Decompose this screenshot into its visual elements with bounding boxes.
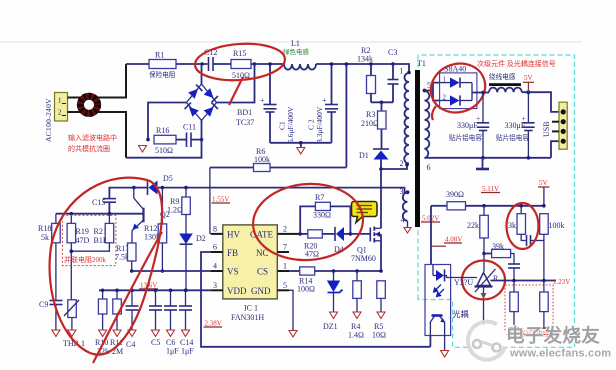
resistor R6	[210, 62, 348, 171]
svg-text:3k: 3k	[508, 221, 516, 230]
svg-text:2: 2	[283, 225, 287, 234]
resistor R19	[67, 214, 89, 300]
svg-text:2.38V: 2.38V	[205, 320, 222, 328]
wire aux line to D5	[158, 188, 408, 193]
wire 22k to TL431	[483, 254, 485, 272]
capacitor C6	[164, 289, 179, 356]
svg-text:5V: 5V	[524, 74, 533, 82]
svg-text:Y3?U: Y3?U	[454, 278, 473, 287]
node 22k top	[482, 204, 486, 208]
secondary ground bar	[476, 158, 489, 169]
svg-text:1μF: 1μF	[166, 347, 179, 356]
secondary winding	[425, 91, 430, 158]
capacitor C2 electrolytic	[307, 62, 339, 143]
svg-text:1: 1	[58, 97, 62, 105]
svg-text:绕线电感: 绕线电感	[489, 72, 516, 81]
svg-text:保险电阻: 保险电阻	[149, 70, 176, 79]
svg-text:47D: 47D	[76, 236, 90, 245]
resistor R2	[357, 46, 376, 102]
svg-text:VDD: VDD	[227, 286, 247, 296]
svg-text:1: 1	[400, 67, 404, 76]
svg-text:R15: R15	[233, 49, 246, 58]
resistor R21	[70, 214, 114, 253]
wire top bus left	[126, 63, 208, 65]
wire drain vertical to Q1	[380, 169, 382, 227]
red circle S8A40	[424, 56, 492, 120]
svg-text:5k: 5k	[41, 233, 49, 242]
svg-text:7NM60: 7NM60	[351, 254, 376, 263]
node R19 top	[70, 212, 74, 216]
resistor 22k	[467, 206, 488, 254]
svg-text:R7: R7	[315, 193, 324, 202]
inductor L1	[283, 39, 316, 70]
capacitor C15	[92, 198, 116, 214]
zener DZ1	[323, 271, 343, 331]
svg-text:R16: R16	[156, 126, 169, 135]
svg-text:BD1: BD1	[237, 108, 252, 117]
capacitor C14	[179, 289, 194, 356]
wire pin5 to rectifier	[425, 83, 440, 91]
ground under C1 C2	[297, 143, 305, 154]
svg-text:+: +	[476, 114, 480, 123]
wire aux pin4 to ground	[407, 221, 409, 227]
svg-text:1.4Ω: 1.4Ω	[348, 331, 364, 340]
svg-text:4: 4	[213, 262, 217, 271]
node R4	[355, 269, 359, 273]
node bus-bridge top	[200, 62, 204, 66]
resistor R15	[231, 60, 251, 69]
svg-text:次级元件 及光耦连接信号: 次级元件 及光耦连接信号	[477, 59, 556, 68]
svg-text:1: 1	[283, 262, 287, 271]
transistor Q2	[132, 188, 170, 243]
capacitor C3	[388, 48, 399, 102]
resistor R11	[110, 289, 123, 357]
core	[415, 70, 420, 227]
wire HV feed vertical	[209, 168, 211, 234]
LED	[432, 265, 434, 276]
red circle TL431	[462, 261, 505, 300]
aux winding	[403, 193, 408, 221]
wire bridge left corner to R16 node	[148, 103, 187, 140]
wire choke top to bus	[97, 64, 126, 98]
wire bus down to bridge top	[201, 64, 203, 84]
yellow comment bubble	[352, 202, 378, 223]
svg-text:并联电阻200k: 并联电阻200k	[64, 255, 106, 264]
capacitor comp 3k	[527, 235, 544, 246]
svg-text:AC100-240V: AC100-240V	[44, 98, 53, 142]
svg-text:5V: 5V	[539, 179, 548, 187]
svg-text:3: 3	[213, 281, 217, 290]
wire bridge bottom down to return rail	[126, 121, 202, 158]
wire VS rail	[132, 270, 211, 272]
svg-text:5: 5	[283, 281, 287, 290]
transistor Q1 MOSFET	[351, 227, 381, 271]
svg-text:4.08V: 4.08V	[445, 236, 462, 244]
resistor R16	[154, 135, 176, 144]
node cap1	[481, 91, 485, 95]
svg-text:D5: D5	[163, 174, 173, 183]
shunt regulator TL431	[475, 269, 500, 326]
svg-text:210Ω: 210Ω	[361, 119, 379, 128]
resistor 3k	[508, 206, 526, 241]
resistor R18	[38, 214, 60, 300]
watermark text	[506, 325, 611, 360]
node gate right	[349, 232, 353, 236]
svg-text:FAN301H: FAN301H	[231, 313, 264, 322]
resistor 100k	[540, 214, 565, 281]
svg-text:330Ω: 330Ω	[313, 211, 331, 220]
svg-text:贴片铝电容: 贴片铝电容	[449, 133, 482, 142]
svg-text:HV: HV	[227, 229, 240, 239]
svg-text:1.23V: 1.23V	[553, 278, 570, 286]
wire GND pin to ground	[289, 290, 293, 330]
wire connector to choke bottom	[68, 111, 82, 113]
op IC1 FAN301H	[211, 225, 289, 323]
wire inductor to USB	[522, 92, 559, 112]
optocoupler	[425, 265, 477, 336]
wire choke bottom to lower rail	[97, 112, 126, 158]
svg-text:4: 4	[401, 216, 405, 225]
svg-text:光耦: 光耦	[453, 309, 469, 319]
svg-text:www.elecfans.com: www.elecfans.com	[509, 348, 611, 360]
connector J1 AC input	[55, 93, 68, 122]
wire USB return	[551, 141, 559, 158]
node 5V	[526, 90, 530, 94]
svg-text:电子发烧友: 电子发烧友	[506, 325, 600, 346]
svg-text:1.55V: 1.55V	[212, 196, 229, 204]
wire opto emitter ground	[444, 336, 446, 351]
wire pin2 to drain node	[381, 165, 407, 170]
wire C11 to bridge bottom vertical	[191, 139, 202, 141]
resistor R3	[361, 102, 386, 148]
svg-text:8: 8	[213, 225, 217, 234]
output inductor wound	[489, 72, 522, 92]
svg-text:L1: L1	[291, 39, 300, 48]
red circle 3k	[507, 203, 539, 249]
svg-text:5.6μF/400V: 5.6μF/400V	[286, 106, 295, 143]
svg-text:GND: GND	[251, 286, 271, 296]
wire connector to choke top	[68, 97, 82, 99]
svg-text:C11: C11	[183, 123, 196, 132]
svg-text:CS: CS	[257, 267, 268, 277]
resistor R9	[167, 186, 190, 234]
svg-text:100k: 100k	[549, 221, 565, 230]
svg-text:C4: C4	[126, 340, 135, 349]
resistor R12	[144, 186, 167, 273]
red blob left network	[50, 178, 163, 355]
node D1 anode drain	[379, 167, 383, 171]
red dotted box parallel resistors	[62, 215, 116, 265]
svg-text:100Ω: 100Ω	[297, 285, 315, 294]
diode D5	[148, 174, 173, 195]
red circle C12 R15	[194, 41, 286, 105]
capacitor C output 330uF second	[496, 92, 535, 157]
svg-text:的共模抗流圈: 的共模抗流圈	[68, 144, 110, 153]
svg-text:47Ω: 47Ω	[305, 250, 319, 259]
common-mode choke toroid	[80, 96, 97, 113]
svg-text:510Ω: 510Ω	[155, 146, 173, 155]
svg-text:FB: FB	[227, 248, 238, 258]
capacitor C11	[183, 123, 196, 148]
wire 5V feed down	[543, 187, 545, 206]
svg-text:2: 2	[58, 109, 62, 117]
capacitor 39k comp	[508, 264, 520, 281]
svg-text:TC37: TC37	[236, 118, 254, 127]
wire C1 C2 bottom rail	[270, 142, 332, 144]
watermark logo	[468, 321, 508, 360]
node ground tap	[299, 141, 303, 145]
resistor R1	[149, 60, 176, 69]
resistor R17	[115, 243, 136, 273]
bridge rectifier BD1	[185, 84, 255, 127]
capacitor C9	[39, 300, 63, 337]
transformer T1	[400, 59, 432, 233]
svg-text:+: +	[260, 96, 265, 105]
resistor R5	[372, 281, 386, 340]
resistor R10	[95, 289, 109, 357]
svg-text:贴片铝电容: 贴片铝电容	[496, 133, 529, 142]
cyan dashed secondary boundary	[418, 55, 575, 347]
diode D2	[179, 234, 206, 293]
wire R2 C3 junction	[371, 101, 393, 103]
svg-text:C3: C3	[388, 48, 397, 57]
pin stubs right	[277, 233, 289, 235]
capacitor C1 electrolytic	[260, 62, 295, 143]
resistor divider upper	[509, 281, 519, 329]
resistor divider lower	[539, 281, 549, 329]
svg-text:R1: R1	[155, 51, 164, 60]
resistor R14	[297, 267, 381, 294]
svg-text:10Ω: 10Ω	[372, 331, 386, 340]
wire 39k row	[482, 252, 486, 256]
wire L1 to transformer pin1	[316, 64, 409, 73]
wire 5V rail top	[483, 92, 489, 94]
node C15 R21	[108, 212, 112, 216]
wire secondary return rail	[425, 157, 552, 159]
svg-text:R19: R19	[76, 227, 89, 236]
capacitor C output 330uF first	[449, 93, 489, 158]
svg-text:D2: D2	[196, 234, 206, 243]
wire 390 left down to opto	[430, 206, 432, 265]
node bridge bottom	[200, 138, 204, 142]
node 3k top	[519, 204, 523, 208]
svg-text:D1: D1	[359, 151, 369, 160]
svg-text:6: 6	[427, 163, 431, 172]
resistor R7	[300, 193, 350, 234]
resistor 390	[446, 190, 544, 210]
svg-text:绿色电感: 绿色电感	[283, 47, 310, 56]
node 100k top	[542, 204, 546, 208]
svg-text:R18: R18	[38, 224, 51, 233]
diode D4	[334, 227, 350, 254]
wire to Q1 gate	[350, 233, 370, 235]
pin stubs left	[211, 233, 223, 235]
dual diode S8A40	[440, 65, 483, 109]
wire GATE	[289, 233, 300, 235]
svg-text:22k: 22k	[467, 221, 479, 230]
svg-text:6: 6	[213, 243, 217, 252]
wire top row right section	[431, 205, 447, 207]
svg-text:DZ1: DZ1	[323, 322, 338, 331]
svg-text:R: R	[493, 274, 499, 283]
svg-text:+: +	[522, 114, 526, 123]
top separator line	[0, 41, 582, 43]
wire VDD rail 13.6V	[99, 289, 211, 291]
thermistor THR1	[63, 300, 85, 348]
svg-text:R3: R3	[366, 110, 375, 119]
ground at R16	[139, 146, 147, 153]
node snubber	[380, 101, 384, 105]
resistor 39k	[484, 242, 514, 264]
svg-text:5.11V: 5.11V	[482, 185, 499, 193]
svg-text:T1: T1	[417, 59, 426, 68]
USB connector	[542, 102, 567, 149]
wire REF row	[491, 280, 557, 282]
svg-text:100k: 100k	[254, 155, 270, 164]
wire D5 cathode to Q2 collector node	[134, 187, 147, 189]
svg-text:2: 2	[400, 159, 404, 168]
svg-text:134k: 134k	[357, 55, 373, 64]
wire R16 to C11	[176, 139, 186, 141]
wire CS row	[289, 270, 300, 272]
diode D1	[359, 149, 389, 169]
red circle gate network	[250, 180, 365, 263]
svg-text:1.2Ω: 1.2Ω	[167, 206, 183, 215]
node gate left	[298, 232, 302, 236]
svg-text:390Ω: 390Ω	[446, 190, 464, 199]
primary winding	[404, 73, 409, 164]
resistor R4	[348, 271, 364, 340]
resistor R20	[300, 230, 334, 259]
svg-text:USB: USB	[542, 121, 551, 137]
svg-text:VS: VS	[227, 267, 239, 277]
red dotted divider box	[505, 285, 553, 335]
svg-text:1μF: 1μF	[181, 347, 194, 356]
wire C15 corner	[109, 188, 133, 198]
svg-text:+: +	[322, 96, 327, 105]
node R5 Q1 source	[379, 269, 383, 273]
svg-text:输入滤波电路中: 输入滤波电路中	[68, 133, 117, 142]
node bridge plus joins bus	[253, 62, 257, 66]
wire opto collector up	[429, 336, 431, 347]
svg-text:IC 1: IC 1	[244, 304, 258, 313]
svg-text:C5: C5	[151, 338, 160, 347]
wire bridge right corner up to bus	[217, 64, 255, 103]
svg-text:7: 7	[283, 243, 287, 252]
wire R15 to L1	[214, 63, 232, 65]
node R16 left	[146, 138, 150, 142]
capacitor C5	[149, 289, 162, 348]
wire Q2 base row	[56, 213, 144, 215]
capacitor C4	[126, 289, 139, 350]
capacitor C12	[204, 48, 217, 71]
node DZ1	[332, 269, 336, 273]
svg-text:3.3μF/400V: 3.3μF/400V	[315, 106, 324, 143]
node Q2 collector	[132, 186, 136, 190]
phototransistor	[432, 314, 443, 317]
svg-text:C9: C9	[39, 300, 48, 309]
wire FB to return	[201, 252, 430, 347]
